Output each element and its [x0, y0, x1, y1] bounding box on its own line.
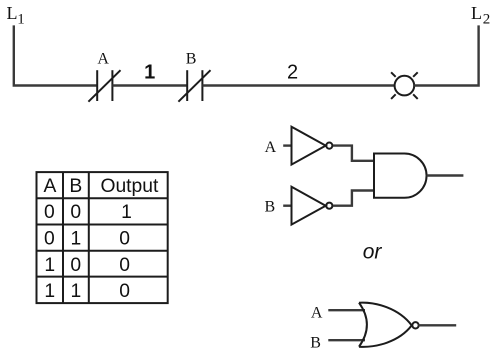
svg-text:A: A [265, 139, 277, 156]
svg-text:B: B [186, 50, 197, 67]
wire contact B to lamp [202, 84, 394, 86]
svg-text:B: B [69, 176, 82, 197]
truth table row 2: 0 1 0 [44, 228, 130, 249]
node L2 label [471, 3, 490, 28]
svg-text:Output: Output [100, 176, 159, 197]
svg-text:2: 2 [287, 62, 298, 84]
wire contact A to contact B [112, 84, 187, 86]
label A (NOR gate input) [311, 304, 323, 321]
svg-text:0: 0 [70, 255, 81, 276]
svg-text:B: B [265, 198, 276, 215]
svg-text:1: 1 [44, 255, 55, 276]
svg-text:L: L [471, 3, 482, 23]
label or (alternative) [363, 240, 383, 263]
label 1 (rung number) [144, 62, 155, 84]
wire inverter U2 output to AND gate lower input [333, 191, 374, 206]
wire NOR gate output [418, 324, 456, 326]
label B (NOR gate input) [310, 335, 321, 352]
label 2 (wire number) [287, 62, 298, 84]
wire input B to NOR gate [328, 339, 365, 341]
svg-text:A: A [97, 50, 109, 67]
truth table row 3: 1 0 0 [44, 255, 130, 276]
wire inverter U1 output to AND gate upper input [333, 146, 374, 161]
svg-text:B: B [310, 335, 321, 352]
label A (contact A) [97, 50, 109, 67]
svg-text:1: 1 [44, 281, 55, 302]
svg-text:L: L [7, 3, 18, 23]
power rail L1 with rung wire to contact A [14, 25, 97, 85]
label B (inverter U2 input) [265, 198, 276, 215]
svg-text:1: 1 [71, 281, 82, 302]
wire input A to inverter U1 [283, 144, 291, 146]
svg-text:0: 0 [119, 228, 130, 249]
lamp (output coil) [391, 72, 418, 99]
wire lamp to power rail L2 [414, 25, 478, 85]
svg-text:A: A [43, 176, 56, 197]
contact B (normally-closed) [178, 70, 210, 102]
truth table row 4: 1 1 0 [44, 281, 130, 302]
truth table grid [37, 172, 168, 303]
svg-text:2: 2 [483, 12, 491, 28]
svg-text:A: A [311, 304, 323, 321]
inverter U1 (NOT gate) [292, 127, 333, 165]
svg-text:0: 0 [70, 202, 81, 223]
node L1 label [7, 3, 25, 27]
label B (contact B) [186, 50, 197, 67]
svg-text:1: 1 [71, 228, 82, 249]
svg-text:1: 1 [144, 62, 155, 84]
svg-text:0: 0 [119, 255, 130, 276]
truth table row 1: 0 0 1 [44, 202, 132, 223]
svg-text:0: 0 [44, 202, 55, 223]
svg-text:1: 1 [121, 202, 132, 223]
wire input B to inverter U2 [283, 204, 291, 206]
svg-text:0: 0 [119, 281, 130, 302]
svg-text:0: 0 [44, 228, 55, 249]
contact A (normally-closed) [88, 70, 120, 102]
truth table header row: A B Output [43, 176, 159, 197]
svg-text:1: 1 [17, 11, 25, 27]
wire input A to NOR gate [328, 309, 365, 311]
AND gate U3 [374, 154, 427, 198]
wire AND gate output [427, 174, 464, 176]
inverter U2 (NOT gate) [292, 187, 333, 225]
NOR gate U4 [359, 303, 419, 347]
label A (inverter U1 input) [265, 139, 277, 156]
svg-text:or: or [363, 240, 383, 263]
